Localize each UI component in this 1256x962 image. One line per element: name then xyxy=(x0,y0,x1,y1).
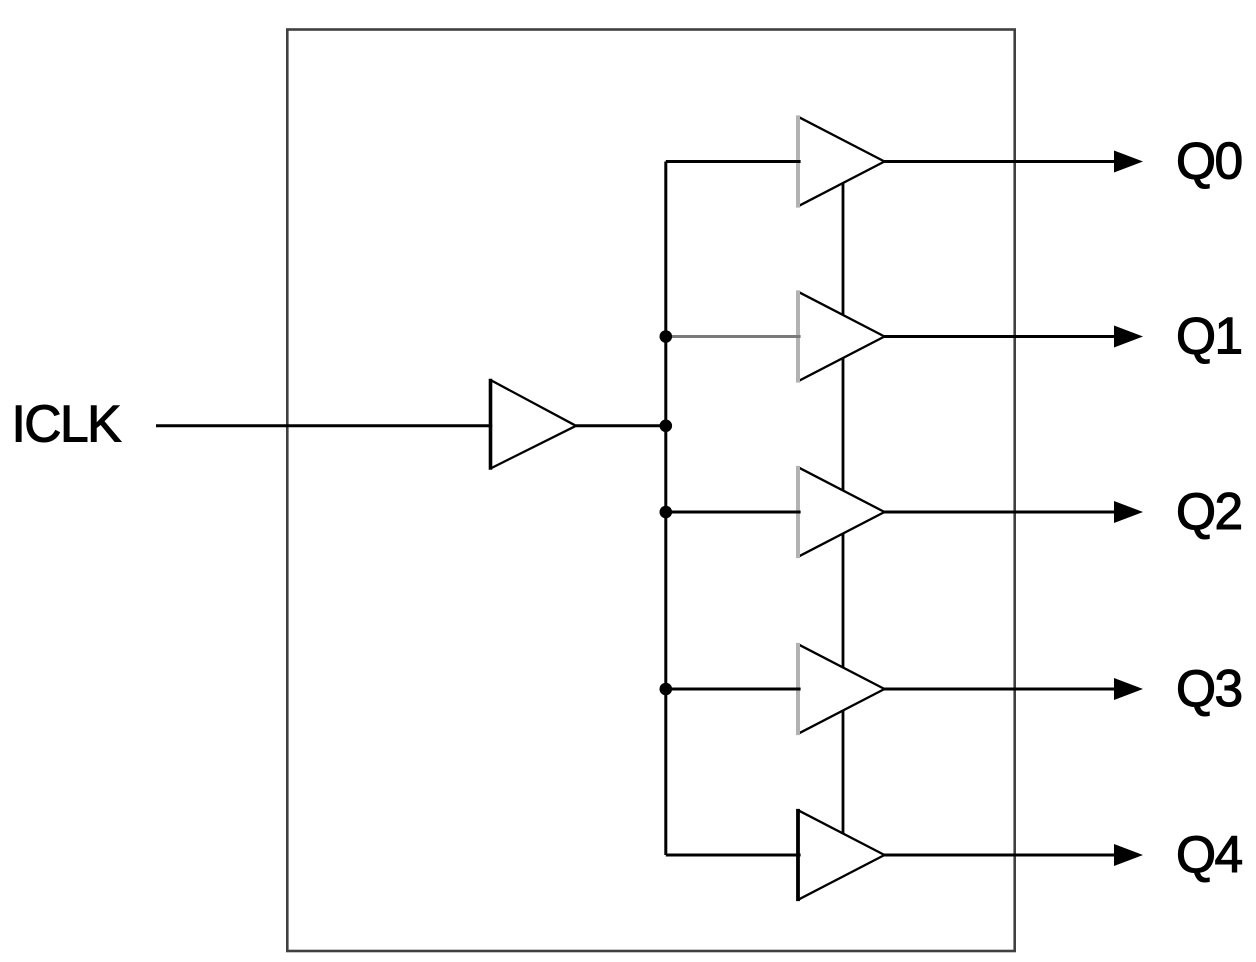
svg-text:Q2: Q2 xyxy=(1176,482,1242,540)
svg-text:Q1: Q1 xyxy=(1176,306,1242,364)
svg-text:Q4: Q4 xyxy=(1176,825,1243,883)
svg-text:Q0: Q0 xyxy=(1176,131,1242,189)
svg-text:ICLK: ICLK xyxy=(12,395,122,453)
svg-text:Q3: Q3 xyxy=(1176,659,1242,717)
